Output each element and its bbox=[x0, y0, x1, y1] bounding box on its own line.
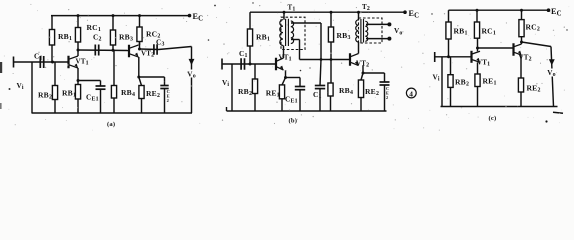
svg-text:4: 4 bbox=[409, 89, 413, 98]
svg-text:(b): (b) bbox=[289, 118, 298, 125]
svg-text:(c): (c) bbox=[489, 115, 497, 122]
svg-text:2: 2 bbox=[167, 98, 169, 103]
svg-text:(a): (a) bbox=[107, 121, 115, 128]
svg-text:2: 2 bbox=[386, 95, 388, 100]
